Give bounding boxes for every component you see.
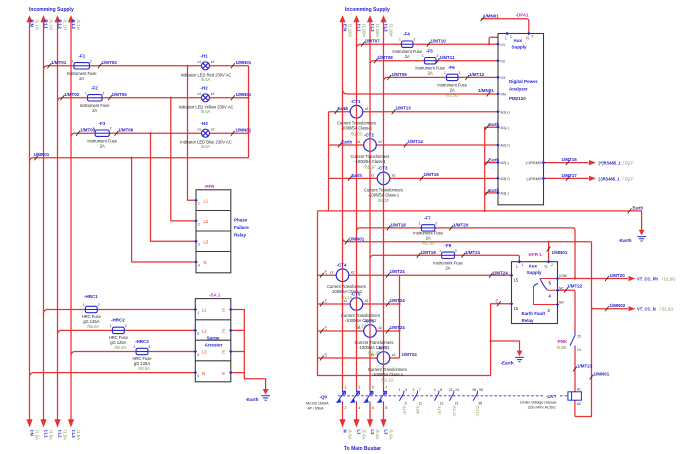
svg-text:1/MN01: 1/MN01 (483, 13, 499, 18)
svg-text:2: 2 (148, 345, 150, 349)
svg-text:8: 8 (386, 406, 388, 410)
svg-text:(+)RS485_1: (+)RS485_1 (599, 161, 622, 166)
svg-text:x1: x1 (198, 128, 202, 132)
svg-text:Earth: Earth (633, 205, 644, 210)
svg-text:L2: L2 (370, 430, 375, 436)
svg-text:Phase: Phase (234, 218, 248, 223)
svg-text:2: 2 (90, 59, 92, 63)
svg-text:/5.0B: /5.0B (557, 345, 567, 350)
svg-text:x1: x1 (357, 326, 361, 330)
svg-text:1/MT16: 1/MT16 (562, 157, 578, 162)
svg-text:-CT3: -CT3 (378, 166, 388, 171)
svg-text:N: N (526, 36, 529, 41)
svg-text:-F6: -F6 (448, 65, 455, 70)
svg-text:3: 3 (198, 243, 200, 247)
svg-text:1: 1 (72, 59, 74, 63)
svg-text:1: 1 (422, 54, 424, 58)
svg-text:2: 2 (435, 221, 437, 225)
svg-text:A1(+): A1(+) (501, 110, 510, 114)
svg-text:E: E (325, 353, 328, 358)
svg-text:/1.5A: /1.5A (63, 430, 68, 440)
svg-text:-F1: -F1 (79, 53, 86, 58)
svg-text:-SA 1: -SA 1 (209, 293, 221, 298)
svg-text:6: 6 (372, 406, 374, 410)
svg-text:2: 2 (413, 388, 415, 392)
svg-text:2: 2 (197, 332, 199, 336)
svg-text:/1.1H: /1.1H (63, 20, 68, 30)
svg-text:-Q0: -Q0 (320, 395, 328, 400)
svg-text:15: 15 (577, 335, 581, 339)
svg-text:/53.2C: /53.2C (452, 406, 456, 417)
svg-text:V3: V3 (501, 76, 506, 80)
svg-text:x1: x1 (371, 174, 375, 178)
svg-text:/92.8A: /92.8A (87, 324, 99, 329)
svg-text:Under Voltage release: Under Voltage release (520, 401, 557, 405)
svg-text:1/MT24: 1/MT24 (402, 352, 418, 357)
svg-text:3: 3 (359, 386, 361, 390)
svg-text:22: 22 (449, 388, 453, 392)
svg-text:1: 1 (93, 127, 95, 131)
svg-text:E:L2: E:L2 (58, 20, 63, 30)
svg-text:2: 2 (110, 127, 112, 131)
svg-text:/61.1B: /61.1B (422, 240, 434, 245)
svg-text:1: 1 (198, 202, 200, 206)
svg-text:14: 14 (577, 348, 581, 352)
svg-text:Supply: Supply (527, 270, 542, 275)
svg-text:A3(+): A3(+) (501, 177, 510, 181)
svg-text:4: 4 (359, 406, 361, 410)
svg-text:V2: V2 (501, 59, 506, 63)
svg-text:I:L3: I:L3 (384, 24, 389, 32)
svg-text:2: 2 (103, 91, 105, 95)
svg-text:-HRC3: -HRC3 (135, 339, 149, 344)
svg-text:NO: NO (559, 301, 564, 305)
svg-text:Arrestor: Arrestor (205, 343, 223, 348)
svg-text:Earth: Earth (342, 140, 353, 145)
svg-text:1/MT02: 1/MT02 (64, 92, 80, 97)
svg-text:Earth: Earth (489, 122, 500, 127)
svg-text:VT_CC_Ph: VT_CC_Ph (637, 277, 658, 282)
svg-text:2: 2 (414, 38, 416, 42)
svg-text:/ S1.0G: / S1.0G (662, 277, 676, 282)
svg-text:-H2: -H2 (201, 86, 209, 91)
svg-text:L2: L2 (202, 329, 207, 334)
svg-text:x1: x1 (198, 92, 202, 96)
svg-text:2: 2 (345, 406, 347, 410)
svg-text:1/MN01: 1/MN01 (34, 152, 50, 157)
svg-text:1: 1 (345, 386, 347, 390)
svg-text:COM: COM (559, 274, 567, 278)
svg-text:(-)RS485_1: (-)RS485_1 (599, 177, 621, 182)
svg-text:2: 2 (459, 71, 461, 75)
svg-text:VN: VN (501, 93, 506, 97)
svg-text:-CT6: -CT6 (364, 318, 374, 323)
svg-text:x2: x2 (211, 92, 215, 96)
svg-text:2A: 2A (428, 71, 433, 76)
svg-text:-CT4: -CT4 (337, 263, 347, 268)
svg-text:L3: L3 (384, 430, 389, 436)
svg-text:Earth: Earth (489, 188, 500, 193)
svg-text:1/MT24: 1/MT24 (390, 269, 406, 274)
svg-text:4: 4 (197, 374, 199, 378)
svg-text:x1: x1 (344, 299, 348, 303)
svg-text:-1000/5A Class-1: -1000/5A Class-1 (354, 159, 386, 164)
svg-text:5: 5 (405, 388, 407, 392)
svg-text:Incomming Supply: Incomming Supply (345, 7, 390, 13)
svg-text:2: 2 (198, 222, 200, 226)
svg-text:/5.8A: /5.8A (201, 144, 211, 149)
svg-text:1: 1 (419, 221, 421, 225)
svg-text:/1.16H: /1.16H (389, 24, 394, 37)
svg-text:Earth: Earth (352, 173, 363, 178)
svg-text:1/MT04: 1/MT04 (102, 60, 118, 65)
svg-text:1/MT24: 1/MT24 (493, 270, 509, 275)
svg-text:-Earth: -Earth (619, 238, 632, 243)
svg-text:1: 1 (110, 324, 112, 328)
svg-text:/117F: /117F (402, 406, 406, 416)
svg-text:Earth Fault: Earth Fault (522, 311, 546, 316)
svg-text:2A: 2A (405, 54, 410, 59)
svg-text:I:L1: I:L1 (44, 430, 49, 438)
svg-text:-F8: -F8 (445, 243, 452, 248)
svg-text:1/MN01: 1/MN01 (349, 236, 365, 241)
svg-text:1: 1 (134, 345, 136, 349)
svg-text:NC: NC (559, 287, 564, 291)
svg-text:1/MT08: 1/MT08 (378, 55, 394, 60)
svg-text:2A: 2A (79, 76, 84, 81)
svg-text:x2: x2 (392, 353, 396, 357)
svg-text:1/MT24: 1/MT24 (390, 298, 406, 303)
svg-text:4: 4 (198, 263, 200, 267)
svg-text:/5.6A: /5.6A (201, 109, 211, 114)
svg-text:7: 7 (419, 388, 421, 392)
svg-text:-Earth: -Earth (246, 397, 259, 402)
svg-text:-EFR 1: -EFR 1 (528, 252, 543, 257)
svg-text:x1: x1 (198, 60, 202, 64)
svg-text:A2: A2 (577, 402, 581, 406)
svg-text:2: 2 (551, 263, 553, 267)
svg-text:x2: x2 (392, 174, 396, 178)
svg-text:1/MT23: 1/MT23 (577, 363, 593, 368)
svg-text:1/MT24: 1/MT24 (390, 325, 406, 330)
svg-text:Analyzer: Analyzer (509, 86, 528, 91)
svg-text:1: 1 (399, 388, 401, 392)
svg-text:x2: x2 (365, 107, 369, 111)
svg-text:x2: x2 (378, 140, 382, 144)
svg-text:1/MT22: 1/MT22 (567, 283, 583, 288)
svg-text:E: E (325, 299, 328, 304)
svg-text:-PMK: -PMK (557, 339, 568, 344)
svg-text:4: 4 (434, 388, 436, 392)
svg-text:I:L1: I:L1 (357, 24, 362, 32)
svg-text:/1.16H: /1.16H (348, 24, 353, 37)
svg-text:N: N (204, 260, 207, 265)
svg-text:VT_CC_N: VT_CC_N (637, 307, 656, 312)
svg-text:Incomming Supply: Incomming Supply (29, 7, 74, 13)
svg-text:x2: x2 (378, 326, 382, 330)
svg-text:7: 7 (386, 386, 388, 390)
svg-text:x2: x2 (211, 60, 215, 64)
svg-text:-F5: -F5 (426, 48, 433, 53)
svg-text:Supply: Supply (512, 44, 527, 49)
svg-text:/117F: /117F (437, 406, 441, 416)
svg-text:5: 5 (372, 386, 374, 390)
svg-text:/116F: /116F (416, 406, 420, 416)
svg-text:24: 24 (455, 388, 459, 392)
svg-text:/1.6A: /1.6A (348, 430, 353, 440)
svg-text:-CT1: -CT1 (351, 99, 361, 104)
svg-text:x1: x1 (371, 353, 375, 357)
svg-text:-F4: -F4 (403, 32, 410, 37)
svg-text:(+)RS485: (+)RS485 (526, 161, 542, 165)
svg-text:15: 15 (514, 278, 519, 283)
svg-text:1/MN01: 1/MN01 (594, 372, 610, 377)
svg-text:2: 2 (532, 35, 534, 39)
svg-text:/ D2.F: / D2.F (623, 161, 635, 166)
svg-text:1/MN01: 1/MN01 (236, 128, 252, 133)
svg-text:1/MN01: 1/MN01 (478, 88, 494, 93)
svg-text:1/MT09: 1/MT09 (392, 72, 408, 77)
svg-text:1/MT20: 1/MT20 (610, 273, 626, 278)
svg-text:V1: V1 (501, 43, 506, 47)
svg-text:/1.5A: /1.5A (49, 430, 54, 440)
svg-text:/92.8A: /92.8A (138, 366, 150, 371)
svg-text:x1: x1 (344, 107, 348, 111)
svg-text:-F2: -F2 (91, 85, 98, 90)
svg-text:E: E (222, 308, 225, 313)
svg-text:x2: x2 (211, 128, 215, 132)
svg-text:E: E (496, 298, 499, 303)
svg-text:1: 1 (439, 249, 441, 253)
svg-text:1: 1 (522, 263, 524, 267)
svg-text:E:N: E:N (343, 24, 348, 31)
svg-text:-CT5: -CT5 (351, 291, 361, 296)
svg-text:N: N (343, 430, 348, 433)
svg-text:-CT2: -CT2 (364, 132, 374, 137)
svg-text:E:N: E:N (30, 20, 35, 27)
svg-text:1/MT17: 1/MT17 (562, 173, 578, 178)
svg-text:-1000/5A Class-1: -1000/5A Class-1 (372, 372, 404, 377)
svg-text:N: N (202, 371, 205, 376)
svg-text:E: E (325, 326, 328, 331)
svg-text:A1(-): A1(-) (501, 126, 509, 130)
svg-text:1: 1 (83, 303, 85, 307)
svg-text:96: 96 (473, 388, 477, 392)
svg-text:/1.16H: /1.16H (362, 24, 367, 37)
svg-text:2: 2 (125, 324, 127, 328)
svg-text:L3: L3 (204, 240, 209, 245)
svg-text:/61.1F: /61.1F (364, 165, 376, 170)
svg-text:E: E (325, 270, 328, 275)
svg-text:1: 1 (197, 311, 199, 315)
svg-text:-Earth: -Earth (501, 361, 514, 366)
svg-text:/92.8A: /92.8A (114, 345, 126, 350)
svg-text:Digital Power: Digital Power (509, 79, 538, 84)
svg-text:L1: L1 (202, 308, 207, 313)
svg-text:-1000/5A Class-1: -1000/5A Class-1 (341, 126, 373, 131)
svg-text:1: 1 (510, 35, 512, 39)
svg-text:1/MT06: 1/MT06 (118, 128, 134, 133)
svg-text:/61.1G: /61.1G (381, 378, 393, 383)
svg-text:1/MT15: 1/MT15 (424, 172, 440, 177)
svg-text:I:L2: I:L2 (58, 430, 63, 438)
svg-text:(-)RS485: (-)RS485 (527, 177, 542, 181)
svg-text:-CT7: -CT7 (378, 345, 388, 350)
svg-text:/1.1H: /1.1H (76, 20, 81, 30)
svg-text:3: 3 (197, 353, 199, 357)
svg-text:-F7: -F7 (424, 216, 431, 221)
svg-text:L2: L2 (204, 219, 209, 224)
svg-text:L1: L1 (357, 430, 362, 436)
svg-text:MCCB 1600A: MCCB 1600A (306, 401, 329, 405)
svg-text:1/MT13: 1/MT13 (396, 106, 412, 111)
svg-text:2: 2 (98, 303, 100, 307)
svg-text:1/MT21: 1/MT21 (465, 250, 481, 255)
svg-text:A2(-): A2(-) (501, 161, 509, 165)
svg-text:220-240V AC/DC: 220-240V AC/DC (528, 405, 557, 409)
svg-text:16: 16 (514, 306, 519, 311)
svg-text:/1.6A: /1.6A (389, 430, 394, 440)
svg-text:Surge: Surge (207, 335, 220, 340)
svg-text:/1.1H: /1.1H (49, 20, 54, 30)
svg-text:L1: L1 (204, 199, 209, 204)
svg-text:/53.1C: /53.1C (476, 406, 480, 417)
svg-text:-H3: -H3 (201, 121, 209, 126)
svg-text:-F3: -F3 (99, 121, 106, 126)
svg-text:/1.5A: /1.5A (35, 430, 40, 440)
svg-text:2A: 2A (100, 143, 105, 148)
svg-text:1: 1 (399, 38, 401, 42)
svg-text:A2(+): A2(+) (501, 144, 510, 148)
svg-text:E:L3: E:L3 (71, 20, 76, 30)
svg-text:A1: A1 (577, 388, 581, 392)
svg-text:1/MT11: 1/MT11 (440, 55, 456, 60)
svg-text:x2: x2 (351, 270, 355, 274)
svg-text:Failure: Failure (234, 225, 249, 230)
svg-text:1/MT18: 1/MT18 (391, 222, 407, 227)
svg-text:E: E (222, 350, 225, 355)
svg-text:1/MT10: 1/MT10 (431, 39, 447, 44)
svg-text:/1.6A: /1.6A (362, 430, 367, 440)
svg-text:-DPA1: -DPA1 (516, 12, 530, 17)
svg-text:/1.16H: /1.16H (375, 24, 380, 37)
svg-text:2A: 2A (445, 265, 450, 270)
svg-text:/ D2.F: / D2.F (623, 177, 635, 182)
svg-text:/1.1H: /1.1H (35, 20, 40, 30)
svg-text:x1: x1 (357, 140, 361, 144)
svg-text:2A: 2A (92, 108, 97, 113)
svg-text:Relay: Relay (234, 233, 247, 238)
svg-text:x2: x2 (365, 299, 369, 303)
svg-text:/61.2F: /61.2F (378, 198, 390, 203)
svg-text:1/MT05: 1/MT05 (112, 92, 128, 97)
svg-text:/61.0C: /61.0C (350, 131, 362, 136)
svg-text:E:L1: E:L1 (44, 20, 49, 30)
svg-text:E: E (222, 371, 225, 376)
svg-text:N: N (545, 264, 548, 269)
svg-text:x1: x1 (330, 270, 334, 274)
svg-text:1/MN01: 1/MN01 (552, 250, 568, 255)
svg-text:1/MT01: 1/MT01 (51, 60, 67, 65)
svg-text:1/MN02: 1/MN02 (610, 303, 626, 308)
svg-text:1/MN01: 1/MN01 (236, 60, 252, 65)
svg-text:1/MT07: 1/MT07 (365, 39, 381, 44)
svg-text:Relay: Relay (522, 318, 535, 323)
svg-text:1/MT12: 1/MT12 (469, 72, 485, 77)
svg-text:E: E (222, 329, 225, 334)
svg-text:A3(-): A3(-) (501, 192, 509, 196)
svg-text:PM2120: PM2120 (509, 96, 526, 101)
svg-text:-H1: -H1 (201, 54, 209, 59)
svg-text:1/MT14: 1/MT14 (408, 139, 424, 144)
svg-text:To Main Busbar: To Main Busbar (344, 446, 381, 452)
svg-text:8: 8 (440, 388, 442, 392)
svg-text:4P / 65kA: 4P / 65kA (308, 406, 324, 410)
svg-text:I:N: I:N (30, 430, 35, 436)
svg-text:L3: L3 (202, 350, 207, 355)
svg-text:-HRC2: -HRC2 (111, 318, 125, 323)
svg-text:I:L2: I:L2 (370, 24, 375, 32)
svg-text:/1.5A: /1.5A (76, 430, 81, 440)
svg-text:-1000/5A Class-1: -1000/5A Class-1 (368, 192, 400, 197)
svg-text:-HRC1: -HRC1 (84, 294, 98, 299)
svg-text:/51.1G: /51.1G (446, 92, 458, 97)
svg-text:-PFR: -PFR (204, 184, 215, 189)
svg-text:1: 1 (444, 71, 446, 75)
svg-text:/1.6A: /1.6A (375, 430, 380, 440)
svg-text:Aux: Aux (529, 264, 538, 269)
svg-text:2: 2 (455, 249, 457, 253)
svg-text:1: 1 (85, 91, 87, 95)
svg-text:/5.5A: /5.5A (201, 77, 211, 82)
svg-text:-UVT: -UVT (546, 394, 557, 399)
svg-text:1/MN01: 1/MN01 (236, 92, 252, 97)
svg-text:/ S1.0G: / S1.0G (660, 307, 674, 312)
svg-text:1/MT19: 1/MT19 (421, 250, 437, 255)
svg-text:Earth: Earth (489, 158, 500, 163)
svg-text:2: 2 (437, 54, 439, 58)
svg-text:I:L3: I:L3 (71, 430, 76, 438)
svg-text:1/MT20: 1/MT20 (453, 222, 469, 227)
svg-text:98: 98 (479, 388, 483, 392)
svg-text:Aux: Aux (514, 38, 523, 43)
